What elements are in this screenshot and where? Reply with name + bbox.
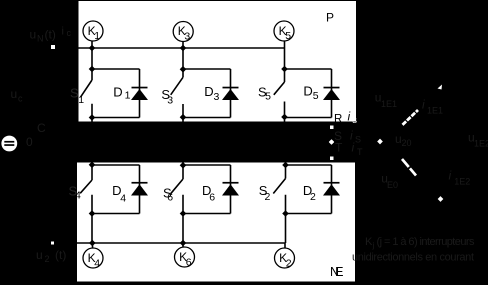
svg-text:5: 5 [285,30,291,42]
svg-text:c: c [18,93,23,103]
svg-text:i: i [422,98,425,112]
svg-text:1E2: 1E2 [454,177,470,187]
svg-text:5: 5 [265,91,271,103]
svg-text:j: j [372,241,375,250]
svg-text:1E1: 1E1 [381,99,397,109]
svg-text:2: 2 [45,254,50,264]
svg-text:D: D [303,83,312,98]
svg-text:S: S [355,135,361,145]
svg-text:c: c [67,28,72,38]
svg-text:T: T [335,141,343,155]
svg-text:3: 3 [167,94,173,106]
svg-text:3: 3 [184,30,190,42]
svg-text:1E1: 1E1 [427,105,443,115]
svg-text:6: 6 [186,257,192,269]
svg-text:u: u [30,28,37,42]
svg-text:20: 20 [402,138,412,148]
svg-text:D: D [113,84,122,99]
svg-text:2: 2 [265,191,271,203]
svg-text:i: i [449,169,452,183]
svg-text:i: i [352,141,355,155]
svg-text:N: N [37,34,44,44]
svg-text:1: 1 [94,30,100,42]
svg-text:2: 2 [310,191,316,203]
svg-text:P: P [326,11,334,25]
svg-text:T: T [357,147,363,157]
svg-text:1E2: 1E2 [474,138,488,148]
svg-text:(j = 1 à 6) interrupteurs: (j = 1 à 6) interrupteurs [377,236,476,248]
svg-text:4: 4 [75,189,81,201]
svg-text:(t): (t) [55,248,66,262]
svg-text:1: 1 [78,94,84,106]
svg-text:4: 4 [120,193,126,205]
svg-text:S: S [70,86,79,101]
svg-text:4: 4 [94,258,100,270]
svg-text:0: 0 [26,135,33,149]
svg-text:i: i [62,25,64,37]
svg-text:u: u [11,87,18,101]
svg-text:NE: NE [330,265,344,279]
svg-text:(t): (t) [45,28,56,42]
svg-text:3: 3 [214,91,220,103]
svg-text:2: 2 [286,258,292,270]
svg-text:C: C [37,121,46,135]
svg-text:5: 5 [313,90,319,102]
svg-text:D: D [204,84,213,99]
svg-text:i: i [348,110,351,124]
svg-text:R: R [334,113,342,125]
svg-text:6: 6 [209,192,215,204]
svg-text:s: s [352,115,357,126]
svg-text:1: 1 [125,89,131,101]
svg-text:u: u [36,248,43,262]
svg-text:6: 6 [167,192,173,204]
svg-text:unidirectionnels en courant: unidirectionnels en courant [352,252,474,264]
svg-text:E0: E0 [387,180,398,190]
